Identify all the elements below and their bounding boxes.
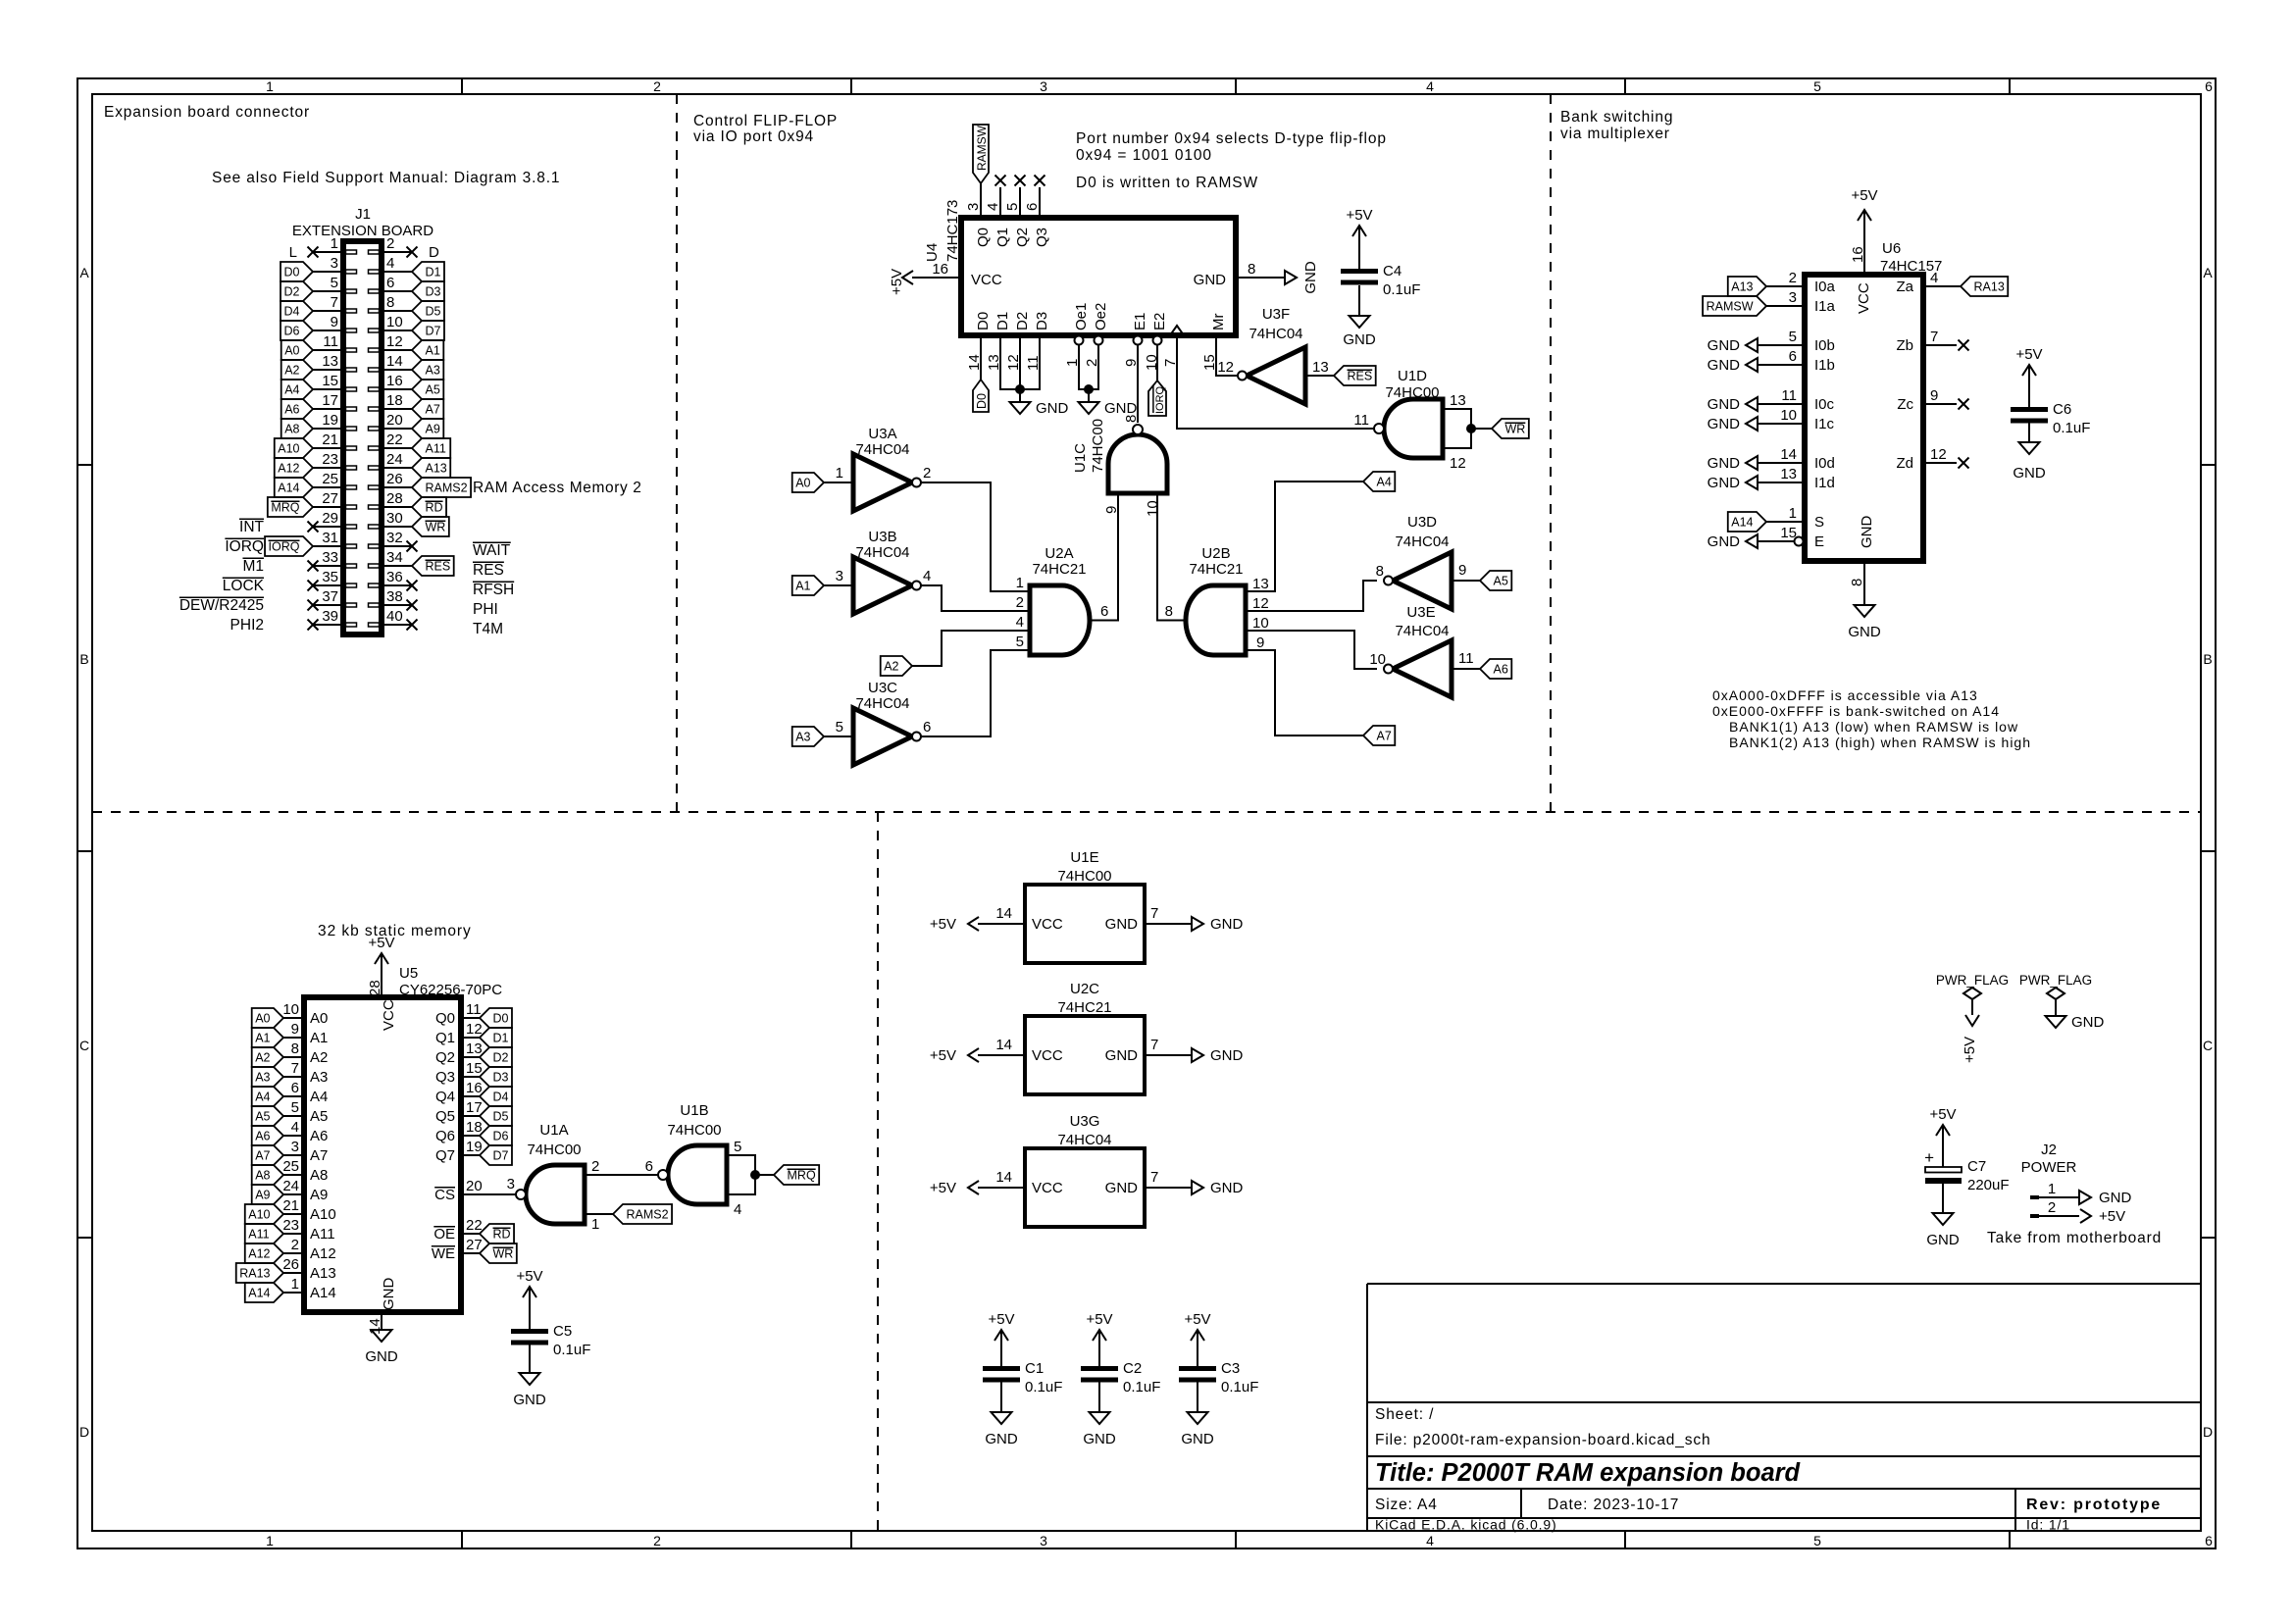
global label A1 at U5 A1	[252, 1028, 283, 1047]
wire U1A pin2 to U1B output	[585, 1174, 658, 1176]
wire U1C pin 10 to U2B output	[1157, 493, 1186, 621]
svg-text:RAMS2: RAMS2	[426, 482, 468, 495]
svg-text:CY62256-70PC: CY62256-70PC	[399, 982, 502, 998]
svg-text:10: 10	[386, 314, 403, 330]
svg-text:I0a: I0a	[1814, 279, 1836, 295]
svg-text:15: 15	[466, 1060, 483, 1077]
svg-text:Control FLIP-FLOP: Control FLIP-FLOP	[693, 113, 838, 129]
power unit U1E 74HC00 body	[1025, 885, 1145, 963]
svg-text:Port number 0x94 selects D-typ: Port number 0x94 selects D-type flip-flo…	[1076, 130, 1387, 147]
svg-text:A14: A14	[278, 482, 299, 495]
svg-text:GND: GND	[1708, 533, 1741, 550]
svg-text:25: 25	[282, 1158, 299, 1175]
svg-text:A1: A1	[795, 580, 810, 593]
svg-text:GND: GND	[1036, 400, 1069, 417]
ground symbol below C3	[1188, 1412, 1208, 1424]
no-connect J1 pin 29	[308, 522, 319, 533]
svg-text:A4: A4	[310, 1089, 328, 1105]
svg-text:U3B: U3B	[868, 529, 896, 545]
svg-text:GND: GND	[1708, 396, 1741, 413]
global label A11 at J1 pin 22	[412, 438, 450, 458]
svg-text:74HC21: 74HC21	[1057, 999, 1111, 1016]
svg-text:A9: A9	[426, 423, 440, 436]
svg-text:GND: GND	[381, 1278, 397, 1311]
global label A2	[881, 656, 912, 676]
svg-text:See also Field Support Manual:: See also Field Support Manual: Diagram 3…	[212, 170, 560, 186]
wire J1 pin 3	[313, 271, 343, 273]
svg-text:0xA000-0xDFFF is accessible vi: 0xA000-0xDFFF is accessible via A13	[1712, 687, 1978, 703]
wire GND pin 8	[1236, 277, 1285, 279]
svg-text:8: 8	[291, 1040, 299, 1057]
svg-text:BANK1(2) A13 (high) when RAMSW: BANK1(2) A13 (high) when RAMSW is high	[1729, 735, 2031, 750]
global label A13 at J1 pin 24	[412, 458, 450, 478]
svg-text:GND: GND	[985, 1431, 1018, 1447]
wire U3E output to A6	[1452, 668, 1480, 670]
svg-text:B: B	[79, 651, 88, 667]
power symbol GND at U6 input	[1746, 456, 1758, 470]
no-connect J1 pin 36	[407, 581, 418, 591]
global label D2 at J1 pin 5	[280, 281, 313, 301]
svg-text:5: 5	[836, 719, 843, 736]
svg-text:Oe2: Oe2	[1093, 303, 1109, 330]
svg-text:L: L	[289, 244, 297, 261]
wire U3F output to RES	[1305, 375, 1334, 377]
wire U5 pin 16	[461, 1095, 480, 1097]
svg-text:S: S	[1814, 514, 1824, 531]
svg-text:GND: GND	[1708, 337, 1741, 354]
svg-text:I1a: I1a	[1814, 298, 1836, 315]
svg-text:Rev: prototype: Rev: prototype	[2026, 1497, 2162, 1513]
svg-text:MRQ: MRQ	[788, 1169, 816, 1183]
svg-text:A0: A0	[310, 1010, 328, 1027]
svg-text:A4: A4	[255, 1091, 270, 1104]
svg-text:+5V: +5V	[930, 916, 956, 933]
wire E1 to U1C output	[1137, 345, 1139, 423]
svg-text:C: C	[79, 1038, 89, 1053]
global label A8 at U5 A8	[252, 1165, 283, 1185]
global label A3 at J1 pin 14	[412, 360, 443, 380]
svg-text:8: 8	[1123, 415, 1140, 423]
wire U5 pin 24	[283, 1193, 304, 1195]
global label A10 at U5 A10	[245, 1204, 283, 1224]
svg-text:IORQ: IORQ	[269, 540, 300, 554]
wire U5 pin 8	[283, 1056, 304, 1058]
svg-text:A7: A7	[310, 1147, 328, 1164]
junction U1D inputs	[1466, 424, 1476, 433]
svg-text:GND: GND	[1343, 331, 1376, 348]
svg-text:GND: GND	[1105, 1180, 1139, 1196]
svg-text:12: 12	[1252, 595, 1269, 612]
svg-text:A8: A8	[255, 1169, 270, 1183]
global label A4 at U5 A4	[252, 1087, 283, 1106]
svg-text:74HC00: 74HC00	[527, 1142, 581, 1158]
svg-text:U1A: U1A	[539, 1122, 568, 1139]
svg-text:GND: GND	[1708, 416, 1741, 432]
global label A13 to U6	[1728, 277, 1766, 296]
svg-text:U2A: U2A	[1045, 545, 1073, 562]
global label IORQ vertical	[1148, 381, 1166, 416]
svg-text:22: 22	[386, 431, 403, 448]
svg-text:RAM Access Memory 2: RAM Access Memory 2	[473, 480, 641, 496]
wire E2 to IORQ label	[1156, 345, 1158, 381]
wire U5 pin 17	[461, 1115, 480, 1117]
wire U5 pin 3	[283, 1154, 304, 1156]
svg-text:3: 3	[291, 1139, 299, 1155]
ground symbol below U4 D pins	[1010, 402, 1031, 414]
svg-text:Q3: Q3	[435, 1069, 455, 1086]
svg-text:7: 7	[1150, 905, 1158, 922]
global label A5 at J1 pin 16	[412, 380, 443, 399]
svg-text:3: 3	[1040, 1533, 1047, 1548]
ground symbol below C5	[520, 1373, 540, 1385]
power symbol +5V at U6	[1858, 210, 1871, 221]
wire J1 pin 28	[382, 506, 412, 508]
wire U2B pin 9 to A7	[1246, 650, 1363, 736]
svg-text:A0: A0	[284, 344, 299, 358]
svg-text:28: 28	[386, 490, 403, 507]
global label A9 at J1 pin 20	[412, 419, 443, 438]
svg-text:2: 2	[653, 1533, 661, 1548]
svg-text:0.1uF: 0.1uF	[2053, 420, 2090, 436]
svg-text:Q3: Q3	[1034, 228, 1050, 247]
svg-text:Za: Za	[1896, 279, 1913, 295]
svg-text:A5: A5	[426, 383, 440, 397]
capacitor C6	[2022, 365, 2036, 376]
svg-text:0xE000-0xFFFF is bank-switched: 0xE000-0xFFFF is bank-switched on A14	[1712, 703, 2000, 719]
svg-text:+5V: +5V	[1086, 1311, 1112, 1328]
svg-text:0.1uF: 0.1uF	[1123, 1379, 1160, 1396]
no-connect U6 Z output	[1923, 344, 1957, 346]
power symbol GND at U6 input	[1746, 338, 1758, 352]
svg-text:D5: D5	[426, 305, 441, 319]
svg-text:GND: GND	[1926, 1232, 1960, 1248]
svg-text:3: 3	[836, 568, 843, 584]
wire U5 pin 11	[461, 1017, 480, 1019]
svg-text:3: 3	[331, 255, 338, 272]
svg-text:34: 34	[386, 549, 403, 566]
svg-text:9: 9	[1930, 387, 1938, 404]
capacitor C2	[1093, 1330, 1106, 1341]
svg-text:20: 20	[466, 1178, 483, 1194]
svg-text:A13: A13	[310, 1265, 336, 1282]
svg-text:A1: A1	[255, 1032, 270, 1045]
wire J1 pin 21	[313, 447, 343, 449]
svg-text:D1: D1	[994, 312, 1011, 330]
svg-text:Date: 2023-10-17: Date: 2023-10-17	[1548, 1497, 1679, 1513]
power unit U3G 74HC04 body	[1025, 1148, 1145, 1227]
global label A5 at U5 A5	[252, 1106, 283, 1126]
global label D5 at J1 pin 8	[412, 301, 444, 321]
wire A0 to U3A	[824, 482, 853, 483]
svg-text:5: 5	[1813, 78, 1821, 94]
svg-text:13: 13	[1780, 466, 1797, 482]
svg-text:BANK1(1) A13 (low) when RAMSW: BANK1(1) A13 (low) when RAMSW is low	[1729, 719, 2018, 735]
global label A0 at J1 pin 11	[281, 340, 313, 360]
svg-text:I0c: I0c	[1814, 396, 1835, 413]
wire U5 pin 9	[283, 1037, 304, 1039]
svg-text:Oe1: Oe1	[1073, 303, 1090, 330]
svg-text:+5V: +5V	[368, 935, 394, 951]
svg-text:Zd: Zd	[1896, 455, 1913, 472]
svg-text:C4: C4	[1383, 263, 1402, 279]
svg-text:17: 17	[322, 392, 338, 409]
no-connect U4 top pin	[1015, 176, 1026, 186]
svg-text:15: 15	[322, 373, 338, 389]
svg-text:GND: GND	[1210, 1047, 1244, 1064]
global label A6 at U5 A6	[252, 1126, 283, 1145]
global label D6 at J1 pin 9	[280, 321, 313, 340]
no-connect U4 top pin	[995, 176, 1006, 186]
svg-text:GND: GND	[1708, 455, 1741, 472]
svg-text:VCC: VCC	[1856, 282, 1872, 314]
ground symbol below C1	[992, 1412, 1012, 1424]
svg-text:2: 2	[291, 1237, 299, 1253]
svg-text:U2B: U2B	[1201, 545, 1230, 562]
global label A11 at U5 A11	[245, 1224, 283, 1243]
svg-text:I1d: I1d	[1814, 475, 1835, 491]
svg-text:A9: A9	[310, 1187, 328, 1203]
power symbol GND at U6 input	[1746, 476, 1758, 489]
wire U1D to WR label	[1471, 428, 1492, 430]
svg-text:D0 is written to RAMSW: D0 is written to RAMSW	[1076, 175, 1258, 191]
wire A1 to U3B	[824, 584, 853, 586]
svg-text:2: 2	[2048, 1199, 2056, 1216]
global label D0 at J1 pin 3	[280, 262, 313, 281]
wire U5 pin 18	[461, 1135, 480, 1137]
svg-text:D4: D4	[284, 305, 300, 319]
svg-text:18: 18	[466, 1119, 483, 1136]
svg-text:PHI: PHI	[473, 601, 498, 618]
svg-text:D1: D1	[493, 1032, 509, 1045]
svg-text:A13: A13	[1731, 280, 1753, 294]
wire U2B pin 10 to U3E input	[1246, 631, 1377, 669]
svg-text:4: 4	[923, 568, 931, 584]
global label RD at J1 pin 28	[412, 497, 446, 517]
svg-text:D3: D3	[493, 1071, 509, 1085]
svg-text:A13: A13	[426, 462, 447, 476]
svg-text:A3: A3	[795, 731, 810, 744]
capacitor C3	[1191, 1330, 1204, 1341]
svg-text:6: 6	[923, 719, 931, 736]
svg-text:1: 1	[1016, 575, 1024, 591]
svg-text:2: 2	[923, 465, 931, 482]
power symbol +5V at U1E	[968, 917, 979, 931]
svg-text:14: 14	[386, 353, 403, 370]
svg-text:Q2: Q2	[435, 1049, 455, 1066]
svg-text:E2: E2	[1151, 313, 1168, 330]
svg-text:Expansion board connector: Expansion board connector	[104, 104, 310, 121]
wire Za to RA13	[1923, 285, 1961, 287]
svg-text:RD: RD	[493, 1228, 511, 1242]
svg-text:9: 9	[291, 1021, 299, 1038]
power symbol GND at PWR_FLAG 2	[2046, 1016, 2066, 1028]
wire J1 pin 14	[382, 369, 412, 371]
J2 pin 1	[2030, 1195, 2039, 1199]
svg-text:9: 9	[331, 314, 338, 330]
svg-text:A6: A6	[284, 403, 299, 417]
wire U5 pin 12	[461, 1037, 480, 1039]
svg-text:D5: D5	[493, 1110, 509, 1124]
svg-text:A2: A2	[284, 364, 299, 378]
svg-text:U3G: U3G	[1070, 1113, 1100, 1130]
svg-text:4: 4	[734, 1201, 741, 1218]
svg-text:12: 12	[466, 1021, 483, 1038]
svg-text:7: 7	[1150, 1169, 1158, 1186]
svg-text:6: 6	[386, 275, 394, 291]
svg-text:32: 32	[386, 530, 403, 546]
svg-text:C1: C1	[1025, 1360, 1044, 1377]
svg-text:+5V: +5V	[889, 269, 905, 295]
wire J1 pin 24	[382, 467, 412, 469]
svg-text:+: +	[1924, 1148, 1934, 1167]
svg-text:+5V: +5V	[988, 1311, 1014, 1328]
ground symbol below C2	[1090, 1412, 1110, 1424]
svg-text:5: 5	[331, 275, 338, 291]
svg-text:WR: WR	[426, 521, 446, 534]
svg-text:VCC: VCC	[1032, 916, 1063, 933]
svg-text:A10: A10	[310, 1206, 336, 1223]
svg-text:U4: U4	[924, 243, 941, 262]
svg-text:40: 40	[386, 608, 403, 625]
svg-text:A7: A7	[426, 403, 440, 417]
svg-text:8: 8	[386, 294, 394, 311]
power symbol +5V at U5	[375, 953, 388, 964]
U6 pin E inverted bubble	[1795, 537, 1804, 546]
svg-text:U3A: U3A	[868, 426, 896, 442]
svg-text:18: 18	[386, 392, 403, 409]
svg-text:A3: A3	[310, 1069, 328, 1086]
power symbol GND at U6 input	[1746, 417, 1758, 431]
svg-text:1: 1	[266, 1533, 274, 1548]
svg-text:D2: D2	[284, 285, 300, 299]
wire D1 D2 D3 to GND rail	[1000, 335, 1040, 389]
svg-text:Q1: Q1	[435, 1030, 455, 1046]
svg-text:CS: CS	[434, 1187, 455, 1203]
wire J1 pin 8	[382, 310, 412, 312]
ground symbol below C6	[2019, 442, 2040, 454]
wire J1 pin 13	[313, 369, 343, 371]
global label A3 at U5 A3	[252, 1067, 283, 1087]
svg-text:11: 11	[1353, 412, 1369, 429]
svg-text:POWER: POWER	[2021, 1159, 2077, 1176]
svg-text:OE: OE	[433, 1226, 455, 1243]
svg-text:7: 7	[291, 1060, 299, 1077]
svg-text:7: 7	[1150, 1037, 1158, 1053]
svg-text:220uF: 220uF	[1967, 1177, 2010, 1193]
wire CS to U1A output	[461, 1193, 516, 1195]
svg-text:Q4: Q4	[435, 1089, 455, 1105]
ground symbol below C4	[1350, 316, 1370, 328]
wire U3D output to A5	[1452, 580, 1480, 582]
svg-text:+5V: +5V	[2099, 1208, 2125, 1225]
svg-text:C2: C2	[1123, 1360, 1142, 1377]
svg-text:0.1uF: 0.1uF	[1221, 1379, 1258, 1396]
svg-text:A8: A8	[284, 423, 299, 436]
svg-text:1: 1	[266, 78, 274, 94]
svg-text:22: 22	[466, 1217, 483, 1234]
svg-text:E: E	[1814, 533, 1824, 550]
global label WR at U1D	[1492, 419, 1529, 438]
svg-text:A12: A12	[310, 1245, 336, 1262]
wire VCC to +5V	[912, 277, 961, 279]
svg-text:C: C	[2203, 1038, 2213, 1053]
capacitor C5	[523, 1287, 536, 1297]
svg-text:GND: GND	[1848, 624, 1881, 640]
svg-text:A10: A10	[248, 1208, 270, 1222]
wire VCC U1E	[978, 923, 1025, 925]
svg-text:A6: A6	[255, 1130, 270, 1143]
wire U1B to MRQ	[755, 1174, 774, 1176]
svg-text:RAMS2: RAMS2	[627, 1208, 669, 1222]
wire RAMSW to U4 pin 3	[980, 182, 982, 218]
wire J1 pin 31	[313, 545, 343, 547]
svg-text:A9: A9	[255, 1189, 270, 1202]
svg-text:EXTENSION BOARD: EXTENSION BOARD	[292, 223, 433, 239]
svg-text:+5V: +5V	[2015, 346, 2042, 363]
svg-text:U1D: U1D	[1398, 368, 1427, 384]
svg-text:1: 1	[836, 465, 843, 482]
svg-text:4: 4	[1426, 1533, 1434, 1548]
svg-text:4: 4	[985, 203, 1001, 211]
svg-text:A5: A5	[1494, 575, 1508, 588]
svg-text:+5V: +5V	[1962, 1037, 1978, 1063]
svg-text:14: 14	[995, 1037, 1012, 1053]
global label D2 at U5 Q2	[480, 1047, 512, 1067]
svg-text:A0: A0	[795, 477, 810, 490]
svg-text:+5V: +5V	[516, 1268, 542, 1285]
global label D0 vertical	[973, 380, 989, 412]
svg-text:+5V: +5V	[1346, 207, 1372, 224]
svg-text:17: 17	[466, 1099, 483, 1116]
svg-text:Q0: Q0	[975, 228, 992, 247]
global label A6 at J1 pin 17	[281, 399, 313, 419]
power symbol +5V arrow at J2 pin 2	[2080, 1209, 2091, 1223]
svg-text:5: 5	[291, 1099, 299, 1116]
wire U2A output to U1C pin 9	[1090, 493, 1118, 621]
svg-text:A2: A2	[884, 660, 898, 674]
svg-text:6: 6	[2205, 1533, 2213, 1548]
svg-text:D3: D3	[1034, 312, 1050, 330]
svg-text:GND: GND	[1105, 916, 1139, 933]
svg-text:A8: A8	[310, 1167, 328, 1184]
svg-text:74HC04: 74HC04	[855, 544, 909, 561]
wire A14 to S	[1766, 521, 1805, 523]
svg-text:3: 3	[1789, 289, 1797, 306]
no-connect J1 pin 1	[308, 247, 319, 258]
svg-text:21: 21	[282, 1197, 299, 1214]
svg-text:Bank switching: Bank switching	[1560, 109, 1673, 126]
svg-text:VCC: VCC	[1032, 1180, 1063, 1196]
svg-text:GND: GND	[1302, 261, 1319, 294]
wire U3B output to U2A pin 2	[921, 585, 1030, 611]
svg-text:T4M: T4M	[473, 621, 503, 637]
svg-text:5: 5	[734, 1139, 741, 1155]
svg-text:RES: RES	[426, 560, 451, 574]
svg-text:24: 24	[282, 1178, 299, 1194]
svg-text:DEW/R2425: DEW/R2425	[179, 597, 264, 614]
svg-text:8: 8	[1849, 579, 1865, 586]
no-connect U4 top pin	[1035, 176, 1045, 186]
wire U3C output to U2A pin 5	[921, 650, 1030, 736]
svg-text:14: 14	[995, 1169, 1012, 1186]
global label A6	[1480, 659, 1511, 679]
global label A7 at J1 pin 18	[412, 399, 443, 419]
power symbol GND arrow at U1E	[1192, 917, 1203, 931]
svg-text:D4: D4	[493, 1091, 509, 1104]
svg-text:11: 11	[323, 333, 338, 350]
svg-text:3: 3	[507, 1176, 515, 1193]
svg-text:PWR_FLAG: PWR_FLAG	[1936, 973, 2009, 988]
